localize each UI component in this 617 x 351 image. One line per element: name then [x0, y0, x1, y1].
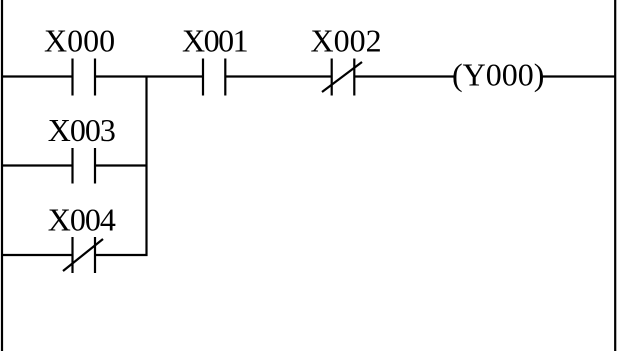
wire rung1 segment: X002 to coil Y000	[354, 75, 455, 77]
wire rung1 segment: left rail to X000	[1, 75, 73, 77]
svg-text:X004: X004	[48, 202, 116, 238]
svg-text:X002: X002	[311, 23, 382, 59]
svg-text:X003: X003	[48, 112, 115, 148]
wire rung1 segment: X001 to X002	[225, 75, 331, 77]
contact X004 (normally closed)	[63, 237, 103, 273]
svg-text:(Y000): (Y000)	[452, 57, 544, 93]
contact X001 (normally open)	[203, 59, 225, 96]
wire rung2 segment: X003 to branch	[95, 164, 148, 166]
contact X003 (normally open)	[73, 148, 96, 184]
left power rail	[1, 0, 3, 351]
wire rung3 segment: X004 to branch	[95, 254, 148, 256]
svg-text:X001: X001	[182, 23, 248, 59]
wire rung2 segment: left rail to X003	[1, 164, 73, 166]
svg-text:X000: X000	[44, 23, 115, 59]
right power rail	[614, 0, 616, 351]
wire rung1 segment: X000 to X001 (through branch junction)	[95, 75, 203, 77]
wire branch vertical (parallel connection)	[145, 76, 147, 257]
contact X000 (normally open)	[73, 59, 96, 96]
wire rung3 segment: left rail to X004	[1, 254, 73, 256]
contact X002 (normally closed)	[322, 59, 362, 96]
wire rung1 segment: coil Y000 to right rail	[541, 75, 616, 77]
